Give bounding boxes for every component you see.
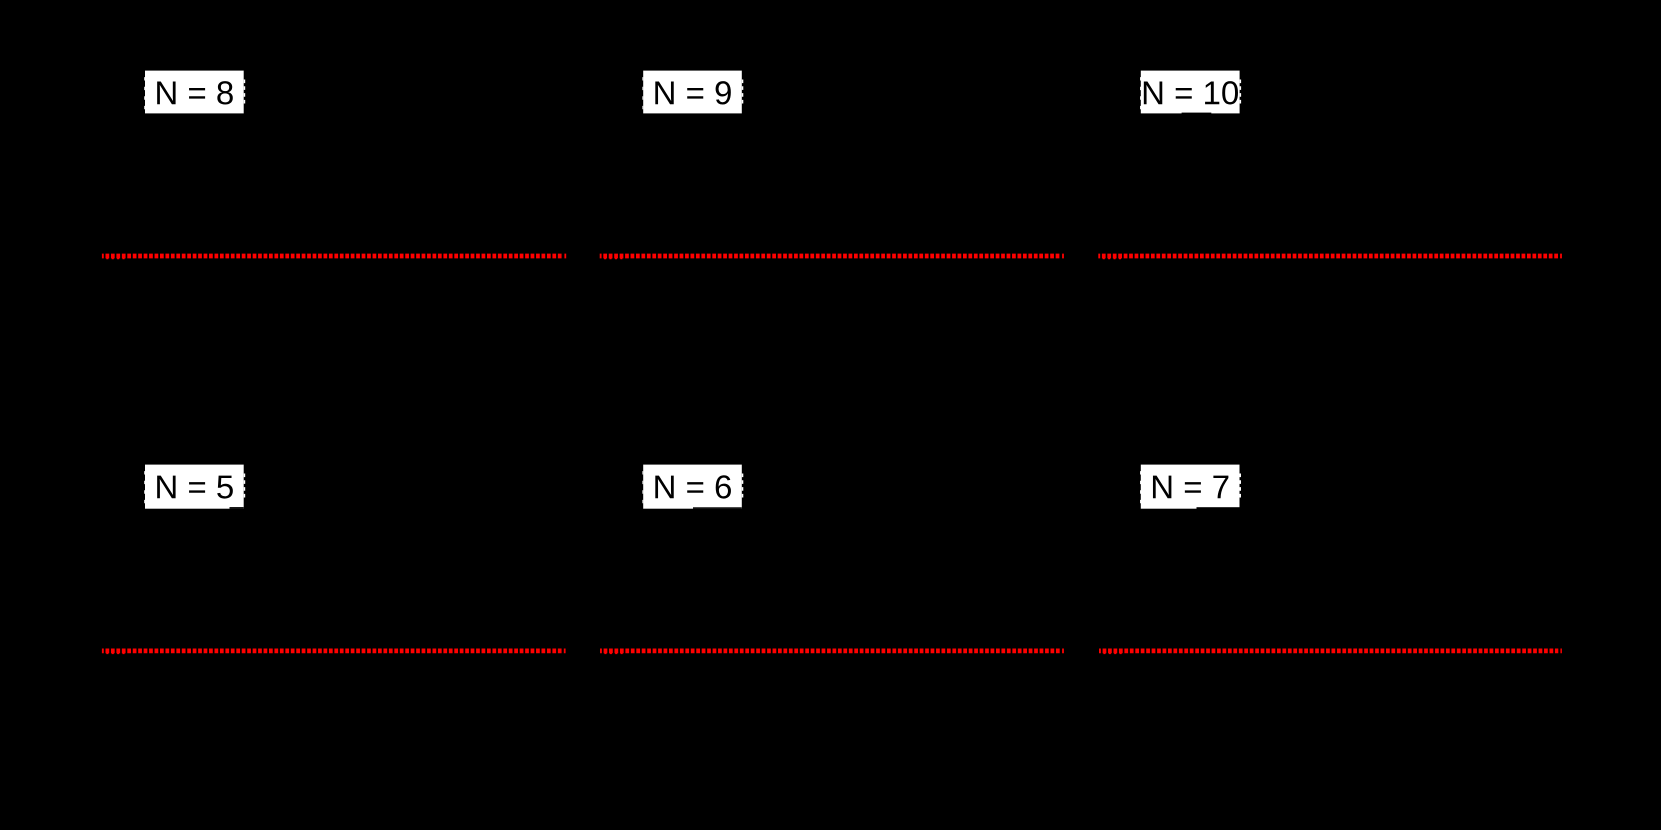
- red dotted curve merging at line end, panel N=10 (top-right): [1558, 252, 1560, 260]
- red dotted curve merging at line start, panel N=7 (bottom-right): [1103, 651, 1125, 654]
- red dotted reference line panel N=9 (top-middle): [600, 254, 1064, 259]
- red dotted reference line panel N=8 (top-left): [102, 254, 566, 259]
- red dotted reference line panel N=6 (bottom-middle): [600, 649, 1064, 654]
- red dotted curve merging at line end, panel N=9 (top-middle): [1060, 252, 1062, 260]
- black curve overlap on N = 10 box bottom edge: [1182, 112, 1212, 115]
- red dotted curve merging at line start, panel N=5 (bottom-left): [106, 651, 128, 654]
- red dotted curve merging at line start, panel N=6 (bottom-middle): [604, 651, 626, 654]
- legend box N = 8: [145, 71, 245, 114]
- legend box N = 10: [1140, 71, 1240, 114]
- red dotted curve merging at line start, panel N=10 (top-right): [1103, 256, 1125, 259]
- red dotted curve merging at line end, panel N=5 (bottom-left): [562, 647, 564, 655]
- legend box N = 5: [145, 465, 245, 509]
- legend box N = 7: [1140, 465, 1240, 509]
- red dotted curve merging at line start, panel N=8 (top-left): [106, 256, 128, 259]
- red dotted curve merging at line end, panel N=8 (top-left): [563, 252, 565, 260]
- red dotted curve merging at line end, panel N=6 (bottom-middle): [1060, 647, 1062, 655]
- red dotted curve merging at line start, panel N=9 (top-middle): [604, 256, 626, 259]
- black curve overlap on N = 5 box bottom edge: [230, 507, 244, 509]
- red dotted reference line panel N=7 (bottom-right): [1099, 649, 1562, 654]
- red dotted curve merging at line end, panel N=7 (bottom-right): [1558, 647, 1560, 655]
- red dotted reference line panel N=5 (bottom-left): [102, 649, 566, 654]
- legend box N = 6: [643, 465, 743, 509]
- black curve overlap on N = 6 box bottom edge: [693, 507, 742, 509]
- black curve overlap on N = 7 box bottom edge: [1197, 507, 1240, 509]
- legend box N = 9: [643, 71, 743, 114]
- red dotted reference line panel N=10 (top-right): [1098, 254, 1562, 259]
